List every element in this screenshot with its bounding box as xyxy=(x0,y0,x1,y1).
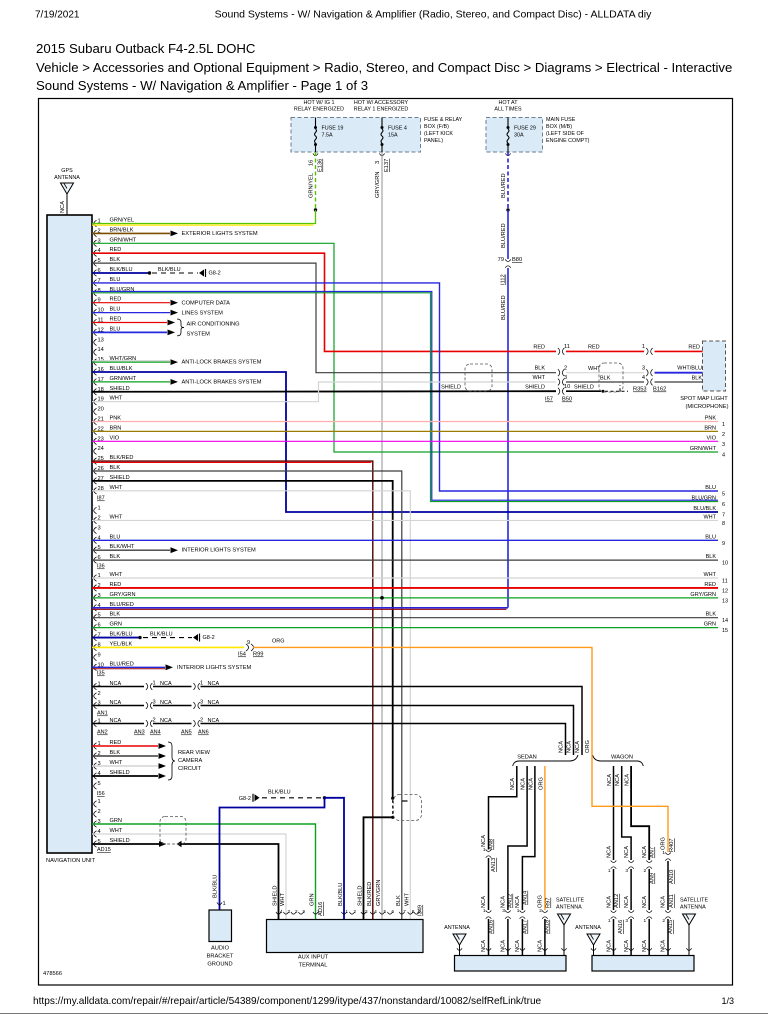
svg-text:B162: B162 xyxy=(653,387,666,393)
svg-text:I57: I57 xyxy=(545,397,553,403)
pin 15 WHT/GRN xyxy=(94,359,97,365)
svg-text:3: 3 xyxy=(153,700,156,706)
wire ORG splice to wagon drop xyxy=(253,647,592,755)
wire BLK/BLU dashed to G8-2 I36-7 xyxy=(143,637,192,639)
pin 18 SHIELD xyxy=(94,389,97,395)
twisted pair box I56 xyxy=(160,817,186,845)
svg-text:3: 3 xyxy=(564,375,567,381)
main fuse box M/B xyxy=(486,118,543,153)
svg-text:BLK: BLK xyxy=(535,366,546,372)
svg-text:6: 6 xyxy=(722,502,725,508)
pin cam-3 WHT xyxy=(94,763,97,769)
connector wagon D upper xyxy=(665,852,671,854)
wagon antenna box xyxy=(592,956,694,972)
svg-text:NAVIGATION UNIT: NAVIGATION UNIT xyxy=(46,858,96,864)
wire BLK I57 to R353 xyxy=(566,381,644,383)
pin aux 3 xyxy=(283,912,288,914)
pin aux 6 xyxy=(387,912,392,914)
fuse & relay box F/B xyxy=(291,118,421,153)
pin 13 xyxy=(94,339,97,345)
svg-text:BLU: BLU xyxy=(705,485,716,491)
svg-text:WHT: WHT xyxy=(110,396,123,402)
svg-text:MAIN FUSE: MAIN FUSE xyxy=(546,117,576,123)
svg-text:AN5: AN5 xyxy=(181,730,192,736)
svg-text:AUX INPUT: AUX INPUT xyxy=(298,955,329,961)
svg-text:NCA: NCA xyxy=(624,846,630,858)
svg-text:1: 1 xyxy=(98,506,101,512)
svg-text:BLU: BLU xyxy=(705,534,716,540)
svg-text:1: 1 xyxy=(98,799,101,805)
svg-text:YEL/BLK: YEL/BLK xyxy=(110,641,133,647)
svg-text:R353: R353 xyxy=(633,387,647,393)
svg-text:ALL TIMES: ALL TIMES xyxy=(494,107,522,113)
svg-text:ANTENNA: ANTENNA xyxy=(54,175,80,181)
wire WHT/BLU R353 to microphone xyxy=(655,372,704,374)
wire satellite antenna wagon xyxy=(688,925,690,956)
connector I57 B50 column xyxy=(558,348,560,355)
wire BLU I87-4 to right edge pin 9 xyxy=(92,539,718,541)
svg-text:GRY/GRN: GRY/GRN xyxy=(690,592,716,598)
wire BLK pin 5 to microphone xyxy=(92,263,556,373)
node junction GRY/GRN fuse drop xyxy=(380,596,384,600)
connector I112 B80 inline xyxy=(505,259,511,261)
svg-text:G8-2: G8-2 xyxy=(209,271,221,277)
svg-text:ANTI-LOCK BRAKES SYSTEM: ANTI-LOCK BRAKES SYSTEM xyxy=(182,360,262,366)
svg-text:AN10: AN10 xyxy=(669,870,675,884)
svg-text:BLU/RED: BLU/RED xyxy=(501,173,507,198)
pin 14 xyxy=(94,349,97,355)
svg-text:SYSTEM: SYSTEM xyxy=(187,331,211,337)
svg-text:15: 15 xyxy=(722,628,728,634)
connector wagon C bottom xyxy=(646,910,652,912)
wire BLK/WHT I87-5 xyxy=(92,549,170,551)
svg-text:G8-2: G8-2 xyxy=(239,796,251,802)
svg-text:30A: 30A xyxy=(514,133,524,139)
svg-text:1/3: 1/3 xyxy=(721,996,734,1006)
fuse 19 7.5A xyxy=(315,118,317,127)
svg-text:AN1: AN1 xyxy=(97,711,108,717)
svg-text:1: 1 xyxy=(644,918,647,924)
wire BRN/BLK pin 2 xyxy=(92,232,170,234)
svg-text:AD16: AD16 xyxy=(318,902,324,916)
svg-text:WHT: WHT xyxy=(405,893,411,906)
wire NCA wagon col C mid xyxy=(648,869,650,910)
wire RED R353 to microphone xyxy=(655,350,704,352)
pin I36-8 YEL/BLK xyxy=(94,644,97,650)
pin 23 VIO xyxy=(94,438,97,444)
svg-text:ORG: ORG xyxy=(661,837,667,850)
svg-text:E136: E136 xyxy=(318,159,324,172)
svg-text:I112: I112 xyxy=(501,274,507,285)
svg-text:3: 3 xyxy=(625,918,628,924)
svg-text:BLK: BLK xyxy=(110,612,121,618)
wire SHIELD I56-5 to aux xyxy=(92,843,160,845)
svg-text:BLU: BLU xyxy=(110,534,121,540)
svg-text:WHT: WHT xyxy=(110,760,123,766)
svg-text:NCA: NCA xyxy=(575,741,581,753)
wire NCA sedan col C xyxy=(522,766,535,910)
svg-text:NCA: NCA xyxy=(661,896,667,908)
svg-text:7.5A: 7.5A xyxy=(322,133,333,139)
svg-text:10: 10 xyxy=(564,384,570,390)
pin I56-1 xyxy=(94,801,97,807)
pin 5 BLK xyxy=(94,260,97,266)
wire RED I36-2 to right edge pin 12 xyxy=(92,587,718,589)
svg-text:AN14: AN14 xyxy=(523,891,529,905)
svg-text:BLU: BLU xyxy=(110,277,121,283)
svg-text:HOT AT: HOT AT xyxy=(499,100,519,106)
wire PNK pin 21 to right edge pin 1 xyxy=(92,421,718,423)
svg-text:RED: RED xyxy=(110,297,122,303)
pin 6 BLK/BLU xyxy=(94,270,97,276)
pin row 5 empty xyxy=(94,783,97,789)
svg-text:AN6: AN6 xyxy=(198,730,209,736)
svg-text:BOX (M/B): BOX (M/B) xyxy=(546,124,572,130)
svg-text:AN12: AN12 xyxy=(614,894,620,908)
wire RED pin 11 xyxy=(92,322,167,324)
wire NCA wagon col B to box xyxy=(630,919,632,956)
pin aux 7 xyxy=(399,912,404,914)
pin I36-2 RED xyxy=(94,585,97,591)
svg-text:NCA: NCA xyxy=(661,940,667,952)
svg-text:NCA: NCA xyxy=(607,846,613,858)
svg-text:7: 7 xyxy=(722,513,725,519)
svg-text:AN7: AN7 xyxy=(650,847,656,858)
svg-text:BLK: BLK xyxy=(396,895,402,906)
svg-text:5: 5 xyxy=(722,492,725,498)
pin 28 WHT xyxy=(94,488,97,494)
pin 17 GRN/WHT xyxy=(94,379,97,385)
brace sedan xyxy=(513,755,578,766)
svg-text:SATELLITE: SATELLITE xyxy=(680,898,708,904)
pin 24 xyxy=(94,448,97,454)
svg-text:BLU/RED: BLU/RED xyxy=(501,223,507,248)
svg-text:VIO: VIO xyxy=(707,435,717,441)
wire GRN/YEL pin 1 xyxy=(92,210,316,224)
svg-text:AD15: AD15 xyxy=(97,847,111,853)
pin I87-6 BLK xyxy=(94,557,97,563)
pin I35-2 xyxy=(94,693,97,699)
svg-text:WHT: WHT xyxy=(110,514,123,520)
svg-text:NCA: NCA xyxy=(481,940,487,952)
svg-text:7: 7 xyxy=(403,909,406,914)
svg-text:8: 8 xyxy=(722,521,725,527)
svg-text:AN17: AN17 xyxy=(523,920,529,934)
svg-text:SHIELD: SHIELD xyxy=(441,385,461,391)
svg-text:https://my.alldata.com/repair/: https://my.alldata.com/repair/#/repair/a… xyxy=(33,996,542,1007)
svg-text:WHT: WHT xyxy=(532,375,545,381)
svg-text:BLK/BLU: BLK/BLU xyxy=(158,267,181,273)
svg-text:NCA: NCA xyxy=(481,896,487,908)
wire BLU/RED solid lower xyxy=(507,268,509,608)
wire NCA wagon col C xyxy=(631,766,649,860)
pin I87-1 xyxy=(94,507,97,513)
svg-text:ANTENNA: ANTENNA xyxy=(556,905,582,911)
svg-text:RED: RED xyxy=(110,247,122,253)
antenna symbol sedan xyxy=(453,934,466,945)
wire BLK/RED pin 25 to aux xyxy=(92,461,373,919)
svg-text:GRN: GRN xyxy=(310,893,316,906)
pin 27 SHIELD xyxy=(94,478,97,484)
svg-text:11: 11 xyxy=(564,344,570,350)
pin 7 BLU xyxy=(94,280,97,286)
connector wagon A upper xyxy=(611,860,617,862)
svg-text:SHIELD: SHIELD xyxy=(574,385,594,391)
svg-text:AN2: AN2 xyxy=(97,730,108,736)
node junction BLU/RED xyxy=(506,208,509,211)
svg-text:RED: RED xyxy=(704,582,716,588)
pin 4 RED xyxy=(94,250,97,256)
svg-text:R99: R99 xyxy=(253,651,263,657)
svg-text:3: 3 xyxy=(98,525,101,531)
svg-text:BRN/BLK: BRN/BLK xyxy=(110,227,134,233)
svg-text:WHT: WHT xyxy=(110,485,123,491)
wire BLU/BLK pin 16 to right edge pin 7 xyxy=(92,372,718,512)
pin 21 PNK xyxy=(94,418,97,424)
svg-text:RELAY 1 ENERGIZED: RELAY 1 ENERGIZED xyxy=(354,107,409,113)
svg-text:AN12: AN12 xyxy=(508,894,514,908)
svg-text:ORG: ORG xyxy=(538,895,544,908)
svg-text:SHIELD: SHIELD xyxy=(525,385,545,391)
wire NCA sedan col D to box xyxy=(544,919,546,956)
svg-text:16: 16 xyxy=(309,160,315,166)
svg-text:ENGINE COMPT): ENGINE COMPT) xyxy=(546,138,590,144)
svg-text:GRN: GRN xyxy=(704,622,716,628)
svg-text:3: 3 xyxy=(200,700,203,706)
svg-text:AN3: AN3 xyxy=(134,730,145,736)
svg-text:AN16: AN16 xyxy=(489,920,495,934)
pin 12 BLU xyxy=(94,329,97,335)
svg-text:GRN/YEL: GRN/YEL xyxy=(110,218,135,224)
svg-text:RED: RED xyxy=(688,345,700,351)
wire NCA sedan col A lower xyxy=(488,858,490,910)
svg-text:24: 24 xyxy=(98,446,104,452)
wire antenna sedan xyxy=(459,945,461,956)
svg-text:I56: I56 xyxy=(97,791,105,797)
sedan antenna box xyxy=(455,956,567,972)
pin 16 BLU/BLK xyxy=(94,369,97,375)
svg-text:GPS: GPS xyxy=(61,168,73,174)
pin I36-4 BLU/RED xyxy=(94,605,97,611)
node G8-2 junction xyxy=(323,796,326,799)
svg-text:NCA: NCA xyxy=(501,896,507,908)
svg-text:2: 2 xyxy=(200,718,203,724)
svg-text:WHT/BLU: WHT/BLU xyxy=(677,366,702,372)
brace wagon xyxy=(593,755,644,766)
wire BLK I36-5 to right edge pin 14 xyxy=(92,617,718,619)
svg-text:4: 4 xyxy=(280,909,283,914)
pins sedan box xyxy=(457,948,462,950)
svg-text:1: 1 xyxy=(483,847,486,853)
pin I36-7 BLK/BLU xyxy=(94,634,97,640)
connector sedan C bottom xyxy=(520,910,526,912)
svg-text:11: 11 xyxy=(722,579,728,585)
svg-text:GRN/YEL: GRN/YEL xyxy=(309,173,315,198)
pin I56-2 xyxy=(94,811,97,817)
pin I87-3 xyxy=(94,527,97,533)
connector wagon B upper xyxy=(628,860,634,862)
connector sedan A bottom xyxy=(486,910,492,912)
svg-text:BLU: BLU xyxy=(110,307,121,313)
pin 2 BRN/BLK xyxy=(94,230,97,236)
diagram border xyxy=(39,99,733,986)
twisted pair box mic right xyxy=(599,363,623,392)
svg-text:NCA: NCA xyxy=(607,940,613,952)
svg-text:RELAY ENERGIZED: RELAY ENERGIZED xyxy=(294,107,344,113)
svg-text:AN15: AN15 xyxy=(668,920,674,934)
svg-text:BRN: BRN xyxy=(110,425,122,431)
pin aux 1 xyxy=(341,912,346,914)
wire NCA sedan col B to box xyxy=(507,919,509,956)
svg-text:BLK/BLU: BLK/BLU xyxy=(213,875,219,898)
spot map light microphone box xyxy=(703,341,726,391)
wire BLU/RED solid upper xyxy=(507,210,509,259)
twisted pair box mic left xyxy=(465,364,492,391)
svg-text:2: 2 xyxy=(564,366,567,372)
pins wagon box xyxy=(591,948,596,950)
svg-text:3: 3 xyxy=(288,909,291,914)
svg-text:NCA: NCA xyxy=(538,940,544,952)
svg-text:BLK: BLK xyxy=(110,465,121,471)
svg-text:NCA: NCA xyxy=(501,940,507,952)
svg-text:PNK: PNK xyxy=(705,416,717,422)
svg-text:AN16: AN16 xyxy=(618,920,624,934)
pin 1 GRN/YEL xyxy=(94,220,97,226)
wire SHIELD I57 drain xyxy=(566,390,601,392)
svg-text:BLK: BLK xyxy=(706,554,717,560)
pin aux 9 xyxy=(414,912,419,914)
node junction GRN/YEL xyxy=(314,208,317,211)
svg-text:NCA: NCA xyxy=(624,940,630,952)
pin 25 BLK/RED xyxy=(94,458,97,464)
svg-text:2: 2 xyxy=(662,918,665,924)
svg-text:GROUND: GROUND xyxy=(207,962,232,968)
svg-text:HOT W/ IG 1: HOT W/ IG 1 xyxy=(303,100,334,106)
wire BLU/RED I36-4 from fuse drop xyxy=(92,607,508,609)
svg-text:NCA: NCA xyxy=(60,201,66,213)
wire BLU/RED I36-10 xyxy=(92,666,165,668)
wire NCA sedan col B xyxy=(508,766,527,910)
svg-text:BOX (F/B): BOX (F/B) xyxy=(424,124,449,130)
pin 26 BLK xyxy=(94,468,97,474)
svg-text:9: 9 xyxy=(303,909,306,914)
wire NCA wagon col A xyxy=(613,766,615,860)
wire NCA wagon col C to box xyxy=(648,919,650,956)
svg-text:ANTENNA: ANTENNA xyxy=(680,905,706,911)
svg-text:TERMINAL: TERMINAL xyxy=(299,963,328,969)
wire gps antenna lead xyxy=(66,194,68,215)
svg-text:BLK/BLU: BLK/BLU xyxy=(150,632,173,638)
wire NCA wagon col A mid xyxy=(613,869,615,910)
pin I36-6 GRN xyxy=(94,624,97,630)
svg-text:SHIELD: SHIELD xyxy=(273,885,279,906)
connector R353 B162 column xyxy=(646,348,648,355)
pin I87-5 BLK/WHT xyxy=(94,547,97,553)
pin fuse 29 exit xyxy=(505,153,510,155)
wire RED pin 4 to microphone xyxy=(92,253,556,351)
svg-text:PANEL): PANEL) xyxy=(424,138,443,144)
pin 3 GRN/WHT xyxy=(94,240,97,246)
svg-text:1: 1 xyxy=(346,909,349,914)
connector sedan D bottom xyxy=(542,910,548,912)
wire NCA I35-3 row xyxy=(94,702,97,708)
svg-text:1: 1 xyxy=(662,850,665,856)
svg-text:NCA: NCA xyxy=(607,774,613,786)
svg-text:3: 3 xyxy=(375,161,381,164)
wire GRY/GRN I36-3 to right edge pin 13 xyxy=(92,597,718,599)
wire antenna wagon xyxy=(593,945,595,956)
pin 3 fuse 4 exit xyxy=(379,153,384,155)
satellite antenna symbol sedan xyxy=(558,914,571,925)
pin 1 audio bracket xyxy=(217,902,222,904)
audio bracket ground box xyxy=(209,910,232,942)
svg-text:5: 5 xyxy=(384,909,387,914)
aux input terminal box xyxy=(267,920,424,953)
svg-text:NCA: NCA xyxy=(559,741,565,753)
svg-text:EXTERIOR LIGHTS SYSTEM: EXTERIOR LIGHTS SYSTEM xyxy=(182,231,258,237)
svg-text:FUSE 4: FUSE 4 xyxy=(388,126,407,132)
svg-text:3: 3 xyxy=(625,868,628,874)
svg-text:2015 Subaru Outback F4-2.5L DO: 2015 Subaru Outback F4-2.5L DOHC xyxy=(36,41,256,56)
svg-text:REAR VIEW: REAR VIEW xyxy=(178,750,211,756)
svg-text:NCA: NCA xyxy=(515,896,521,908)
pin aux 9 xyxy=(298,912,303,914)
wire BLU pin 10 xyxy=(92,312,170,314)
svg-text:14: 14 xyxy=(722,618,728,624)
svg-text:I36: I36 xyxy=(97,564,105,570)
svg-text:13: 13 xyxy=(98,337,104,343)
fuse 4 15A xyxy=(381,118,383,127)
ground G8-2 bottom xyxy=(252,794,254,802)
svg-text:RED: RED xyxy=(110,740,122,746)
twisted pair tie aux xyxy=(402,800,408,802)
pin cam-4 SHIELD xyxy=(94,773,97,779)
pin cam-1 RED xyxy=(94,743,97,749)
svg-text:2: 2 xyxy=(98,691,101,697)
svg-text:1: 1 xyxy=(223,901,226,907)
svg-text:1: 1 xyxy=(608,868,611,874)
pin 22 BRN xyxy=(94,428,97,434)
svg-text:NCA: NCA xyxy=(615,774,621,786)
svg-text:BLK/BLU: BLK/BLU xyxy=(338,883,344,906)
svg-text:SPOT MAP LIGHT: SPOT MAP LIGHT xyxy=(680,396,728,402)
svg-text:BLK/WHT: BLK/WHT xyxy=(110,544,135,550)
wire NCA AN2 row xyxy=(94,720,97,726)
pin I56-3 GRN xyxy=(94,821,97,827)
connector sedan B bottom xyxy=(505,910,511,912)
svg-text:FUSE 29: FUSE 29 xyxy=(514,126,536,132)
wire VIO pin 23 to right edge pin 3 xyxy=(92,440,718,442)
svg-text:2: 2 xyxy=(354,909,357,914)
svg-text:3: 3 xyxy=(502,908,505,914)
svg-text:5: 5 xyxy=(98,781,101,787)
wire NCA I35-1 row xyxy=(94,683,97,689)
wire BLK R353 to microphone xyxy=(655,381,704,383)
svg-text:NCA: NCA xyxy=(510,778,516,790)
wire YEL/BLK I36-8 xyxy=(92,646,244,648)
svg-text:SHIELD: SHIELD xyxy=(358,885,364,906)
pin aux 1 xyxy=(313,912,318,914)
ground G8-2 upper xyxy=(199,270,204,277)
svg-text:GRN/WHT: GRN/WHT xyxy=(110,237,137,243)
svg-text:AIR CONDITIONING: AIR CONDITIONING xyxy=(187,322,240,328)
svg-text:Vehicle > Accessories and Opti: Vehicle > Accessories and Optional Equip… xyxy=(36,60,732,75)
brace rear view camera xyxy=(168,742,175,780)
svg-text:BLK: BLK xyxy=(110,554,121,560)
svg-text:15A: 15A xyxy=(388,133,398,139)
pin 10 BLU xyxy=(94,309,97,315)
svg-text:BLU/RED: BLU/RED xyxy=(110,602,134,608)
